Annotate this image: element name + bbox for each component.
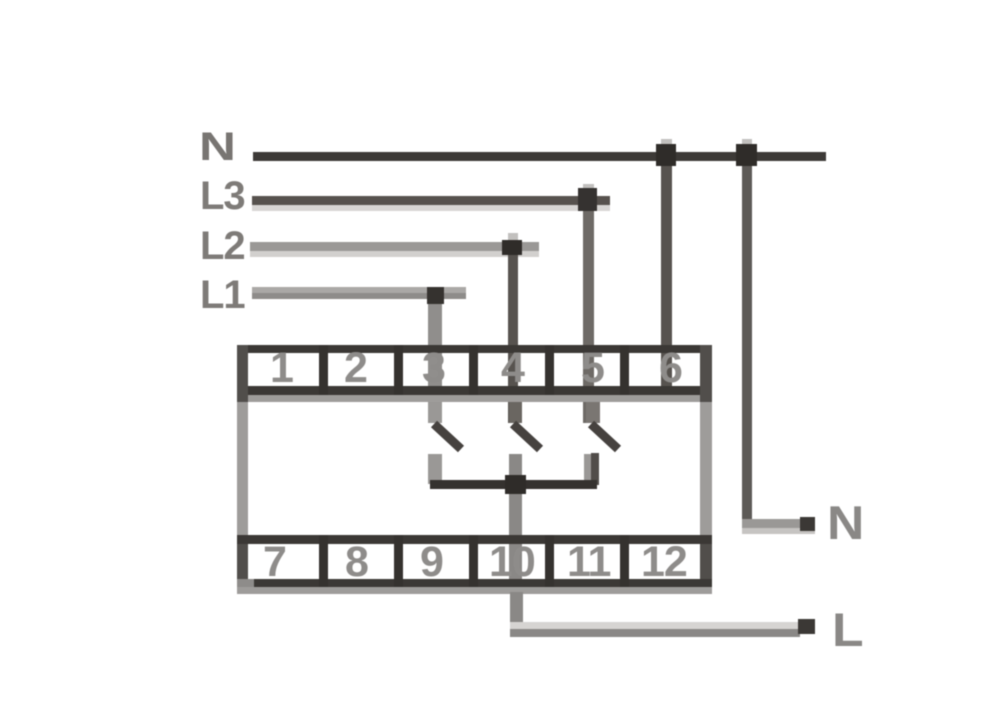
terminal 4 label (501, 344, 524, 393)
switch S1 blade (420, 415, 480, 460)
device box right edge (700, 345, 712, 402)
wire switch output to terminal 10 (509, 454, 522, 592)
wire L output from terminal 10 (510, 592, 523, 636)
node L3 label (200, 174, 245, 219)
wire drop L1 to terminal 3 (428, 300, 442, 423)
wire N right horizontal (742, 519, 802, 528)
terminal 6 label (659, 344, 682, 393)
terminal 1 label (270, 344, 293, 393)
terminal dot L (798, 619, 815, 634)
terminal divider 11|12 (620, 535, 629, 587)
wire L2 (250, 242, 539, 251)
terminal dot N right (800, 517, 815, 531)
terminal divider 7|8 (319, 535, 328, 587)
switch S1 bottom stub (428, 454, 442, 484)
bottom terminal strip top border (237, 535, 712, 544)
terminal strip bottom border (237, 386, 712, 395)
terminal divider 8|9 (394, 535, 403, 587)
switch S3 blade (577, 415, 637, 460)
junction L3 (578, 188, 597, 211)
node L1 label (200, 273, 245, 318)
wire N horizontal bus (253, 152, 826, 161)
device box left edge (237, 345, 248, 402)
switch S2 top stub (509, 402, 522, 423)
switch S2 blade (499, 415, 559, 460)
node L2 label (200, 224, 245, 269)
junction bus center (505, 475, 526, 494)
node N label (left) (199, 125, 235, 170)
terminal divider 3|4 (469, 345, 478, 395)
switch S3 top stub (586, 402, 600, 423)
terminal divider 4|5 (545, 345, 554, 395)
wire drop N to terminal 6 (661, 139, 672, 152)
terminal 2 label (344, 344, 367, 393)
wire drop L3 to terminal 5 (583, 184, 594, 196)
wire L horizontal (510, 622, 800, 629)
terminal 5 label (581, 344, 604, 393)
wire bus joining switch outputs (430, 480, 597, 489)
wire L1 (252, 287, 466, 293)
terminal 7 label (263, 538, 286, 587)
wire drop L2 to terminal 4 (508, 233, 518, 241)
wire drop N to right N terminal (742, 139, 752, 152)
terminal 10 label (489, 538, 535, 587)
terminal 12 label (641, 538, 687, 587)
junction N drop 1 (656, 144, 676, 166)
node N label (right) (827, 495, 863, 550)
node L label (right) (832, 602, 862, 657)
terminal 11 label (567, 538, 610, 587)
wire L3 (252, 196, 610, 205)
junction L1 (427, 287, 444, 304)
terminal divider 1|2 (319, 345, 328, 395)
junction L2 (502, 240, 522, 255)
junction N drop 2 (736, 144, 757, 166)
terminal divider 2|3 (394, 345, 403, 395)
terminal divider 10|11 (545, 535, 554, 587)
switch S1 top stub (428, 402, 442, 423)
terminal divider 5|6 (620, 345, 629, 395)
terminal strip top border (237, 345, 712, 353)
switch S3 bottom stub (584, 454, 592, 484)
terminal 8 label (345, 538, 368, 587)
bottom terminal strip bottom border (237, 579, 712, 587)
terminal 9 label (420, 538, 443, 587)
device box bottom-left corner patch (237, 579, 254, 587)
terminal divider 9|10 (469, 535, 478, 587)
terminal 3 label (422, 344, 445, 393)
